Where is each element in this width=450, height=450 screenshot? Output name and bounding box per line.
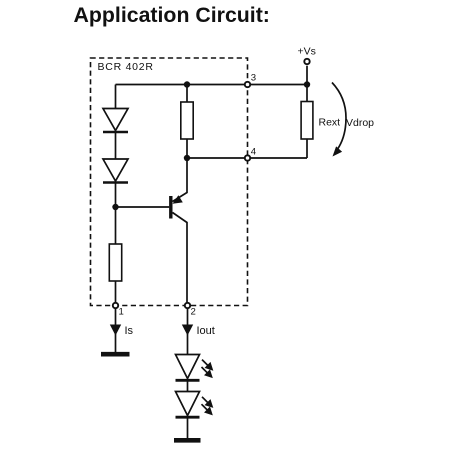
pin 1 terminal circle xyxy=(113,303,118,308)
wire D4 to ground xyxy=(187,417,189,438)
LED D4 light arrows xyxy=(202,397,213,414)
svg-text:2: 2 xyxy=(191,307,196,318)
Vdrop arc arrow xyxy=(332,83,346,153)
node top junction dot xyxy=(184,81,190,87)
node emitter junction dot xyxy=(184,155,190,161)
resistor Rext xyxy=(301,102,313,140)
transistor Q1 emitter arrow xyxy=(173,195,183,204)
current arrow Is xyxy=(110,325,121,336)
resistor R1 (internal, top middle) xyxy=(181,102,193,139)
node base junction dot xyxy=(112,204,118,210)
wire pin 1 to ground xyxy=(115,309,117,352)
LED D3 light arrows xyxy=(202,360,213,377)
wire D2 to base node xyxy=(115,183,117,208)
current arrow Iout xyxy=(182,325,193,336)
transistor Q1 emitter lead xyxy=(173,158,188,202)
wire D3 to D4 xyxy=(187,380,189,391)
svg-text:+Vs: +Vs xyxy=(298,46,316,58)
wire rail to Rext xyxy=(306,85,308,102)
diode D2 xyxy=(103,159,128,183)
svg-text:Vdrop: Vdrop xyxy=(346,117,374,129)
wire R1 to emitter node xyxy=(186,139,188,158)
resistor R2 (internal, lower left) xyxy=(109,244,121,281)
wire base xyxy=(116,206,170,208)
diode D1 xyxy=(103,109,128,133)
pin 3 terminal circle xyxy=(245,82,250,87)
wire Rext to pin 4 wire xyxy=(306,139,308,158)
ground (left) xyxy=(101,352,130,357)
transistor Q1 collector lead xyxy=(173,213,188,306)
wire junction to resistor R1 xyxy=(186,85,188,103)
LED D3 xyxy=(176,355,200,381)
svg-text:Application Circuit:: Application Circuit: xyxy=(74,3,270,27)
svg-text:1: 1 xyxy=(119,307,124,318)
svg-text:BCR 402R: BCR 402R xyxy=(98,61,154,73)
svg-text:3: 3 xyxy=(251,72,256,83)
ground (bottom) xyxy=(174,438,201,443)
svg-text:Iout: Iout xyxy=(197,325,215,337)
node +Vs junction dot xyxy=(304,81,310,87)
wire left branch above diode D1 xyxy=(115,85,117,109)
svg-text:Is: Is xyxy=(125,325,134,337)
wire between D1 and D2 xyxy=(115,132,117,159)
pin 2 terminal circle xyxy=(185,303,190,308)
wire pin 4 horizontal xyxy=(187,157,307,159)
transistor Q1 base bar xyxy=(169,196,172,219)
svg-text:4: 4 xyxy=(251,146,257,157)
wire +Vs to rail xyxy=(306,66,308,85)
wire base node to resistor R2 xyxy=(115,207,117,244)
+Vs terminal circle xyxy=(304,59,309,64)
svg-text:Rext: Rext xyxy=(319,117,341,129)
wire R2 to pin 1 xyxy=(115,281,117,305)
dashed outline box BCR 402R xyxy=(91,58,248,306)
wire top horizontal (node to +Vs rail) xyxy=(116,84,308,86)
LED D4 xyxy=(176,392,200,418)
pin 4 terminal circle xyxy=(245,155,250,160)
wire pin 2 down xyxy=(187,309,189,355)
